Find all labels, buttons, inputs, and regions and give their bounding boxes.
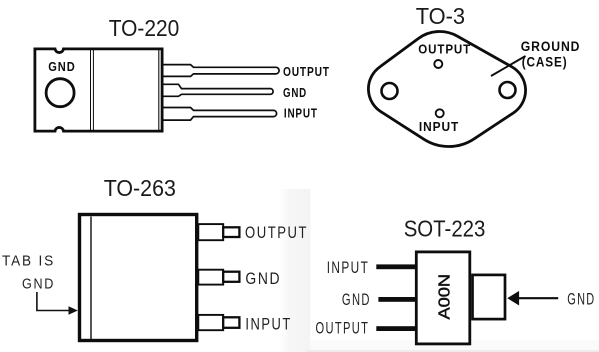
svg-text:SOT-223: SOT-223 xyxy=(404,216,486,242)
svg-text:OUTPUT: OUTPUT xyxy=(418,42,471,57)
svg-text:GND: GND xyxy=(22,276,55,293)
svg-text:INPUT: INPUT xyxy=(327,259,370,277)
svg-text:TO-3: TO-3 xyxy=(416,3,465,29)
svg-text:GND: GND xyxy=(342,291,371,309)
svg-text:A00N: A00N xyxy=(437,274,454,320)
svg-text:TO-220: TO-220 xyxy=(109,15,180,41)
svg-text:INPUT: INPUT xyxy=(284,107,318,121)
svg-text:OUTPUT: OUTPUT xyxy=(316,320,370,338)
svg-text:OUTPUT: OUTPUT xyxy=(245,223,308,242)
svg-text:INPUT: INPUT xyxy=(245,314,291,333)
svg-text:INPUT: INPUT xyxy=(419,119,459,134)
svg-text:TAB IS: TAB IS xyxy=(2,253,55,270)
svg-text:GND: GND xyxy=(283,86,307,100)
svg-text:GND: GND xyxy=(48,60,75,74)
svg-text:GND: GND xyxy=(567,291,595,309)
svg-text:TO-263: TO-263 xyxy=(104,175,176,201)
svg-text:GND: GND xyxy=(245,269,281,288)
svg-text:GROUND: GROUND xyxy=(521,39,581,54)
svg-text:(CASE): (CASE) xyxy=(522,55,568,70)
svg-text:OUTPUT: OUTPUT xyxy=(283,65,330,79)
